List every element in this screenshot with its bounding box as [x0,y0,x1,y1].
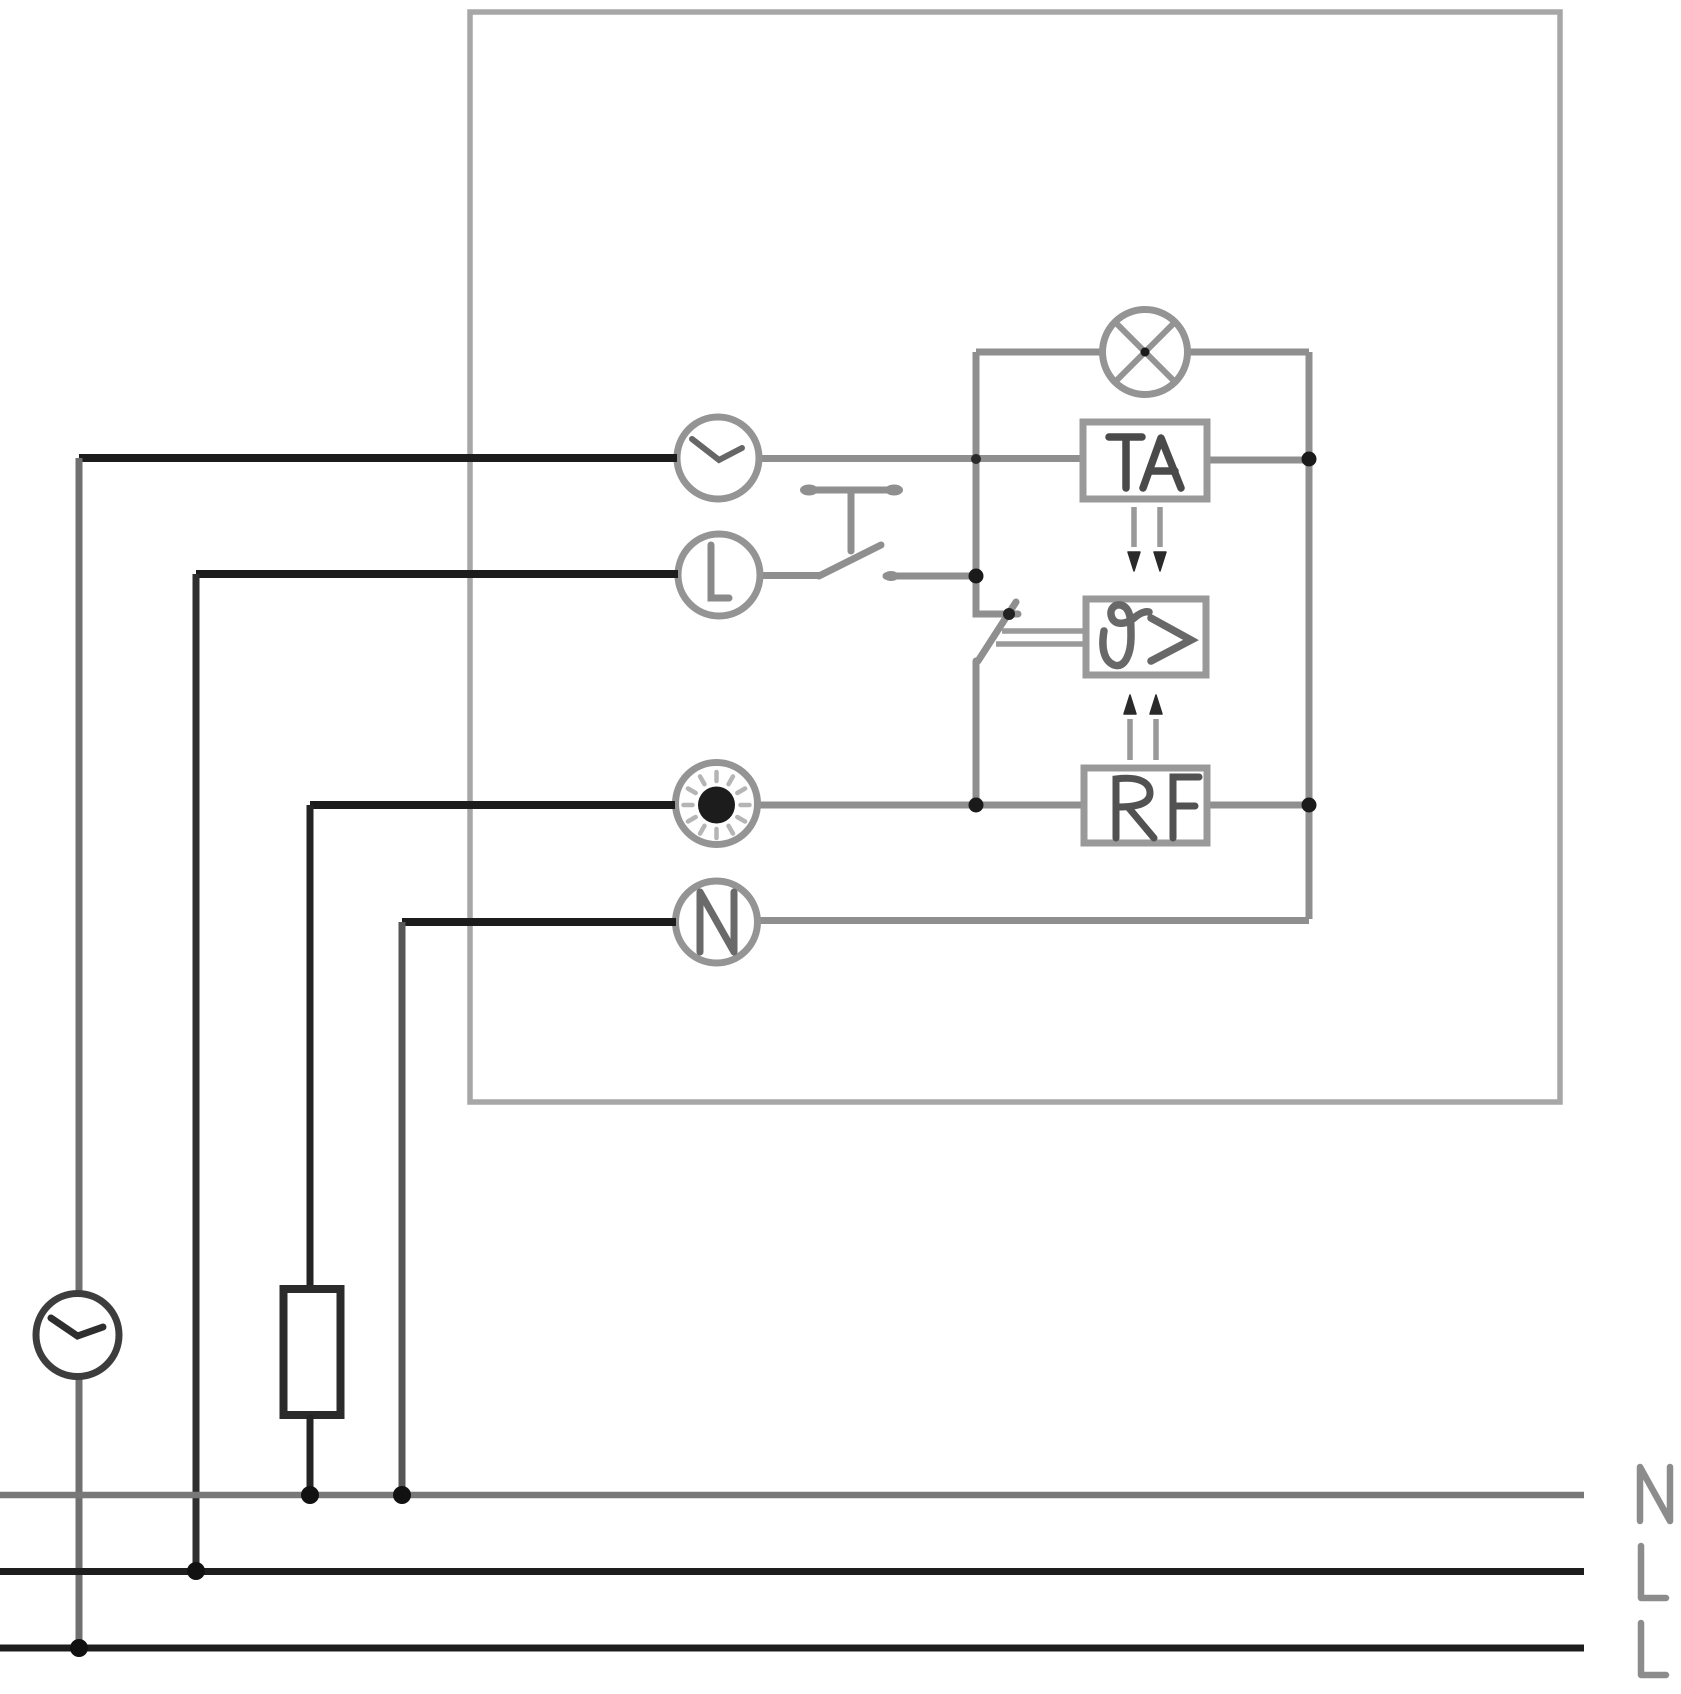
changeover contact of thermostat [976,576,1018,805]
bus line L2 (black) [0,1645,1584,1652]
wire: RF line (y=805) [757,802,1309,809]
label TA [1109,437,1181,488]
terminal L [678,534,760,616]
box thermostat (theta >) [1086,599,1206,675]
box RF (remote sensor) [1084,768,1207,843]
node: clock wire to L2 bus junction [70,1639,88,1657]
coupling arrows RF to thermostat (upward) [1124,695,1162,760]
node: resistor to N bus junction [301,1486,319,1504]
wire: N terminal feed (black horizontal) [402,918,676,926]
pushbutton switch S1 (TA input, normally open) [805,490,972,576]
bus line N (gray) [0,1492,1584,1499]
wire: N terminal to right vertical (y=920) [757,917,1309,924]
wire: clock terminal feed (black horizontal) [79,454,677,462]
wire: clock terminal to TA (gray, y=459) [759,459,1309,461]
wire: inner loop left vertical (x=976) [973,352,980,576]
bus line L1 (black) [0,1568,1584,1575]
lamp E1 (circle with cross) [1103,310,1188,395]
mechanical linkage (double line) to thermostat box [996,631,1086,644]
node: junction RF line / right vertical (1309,805) [1302,798,1317,813]
wire: LED feed vertical drop to resistor (x=310) [307,805,314,1289]
wire: lamp branch top (y=352) [976,349,1309,356]
terminal N [676,881,758,963]
node: junction switch output / vertical (976,576) [969,569,984,584]
device enclosure outline [470,12,1560,1102]
terminal: clock output (circle with clock symbol) [677,417,759,499]
wire: resistor to N bus [307,1415,314,1495]
label L (bus L1) [1641,1546,1666,1598]
node: junction TA line / right vertical (1309,459) [1302,452,1317,467]
node: small junction TA line crossing (976,459) [971,454,981,464]
wire: inner loop right vertical (x=1309) [1306,352,1313,919]
wire: LED terminal feed (black horizontal) [310,801,675,809]
node: N wire to N bus junction [393,1486,411,1504]
node: changeover fixed contact dot (1009,614) [1003,608,1015,620]
wire: L feed vertical drop (x=196) [193,574,200,1571]
wire: N feed vertical drop (x=402) [399,922,406,1495]
wire: L terminal feed (black horizontal) [196,570,678,578]
label L (bus L2) [1641,1623,1666,1675]
clock motor M1 (synchronous clock) [36,1294,119,1377]
node: L wire to L1 bus junction [187,1562,205,1580]
coupling arrows TA to thermostat (downward) [1128,507,1166,571]
label theta > [1103,605,1191,666]
node: junction RF line / vertical (976,805) [969,798,984,813]
label RF [1116,777,1199,838]
label N (bus) [1640,1467,1670,1521]
wire: L terminal to pushbutton contact [761,572,819,579]
resistor R1 [284,1289,341,1415]
terminal LED output (circle with illuminated dot) [676,763,758,845]
wire: clock feed vertical drop (x=79) [76,458,83,1648]
box TA (remote timer input) [1083,422,1207,499]
